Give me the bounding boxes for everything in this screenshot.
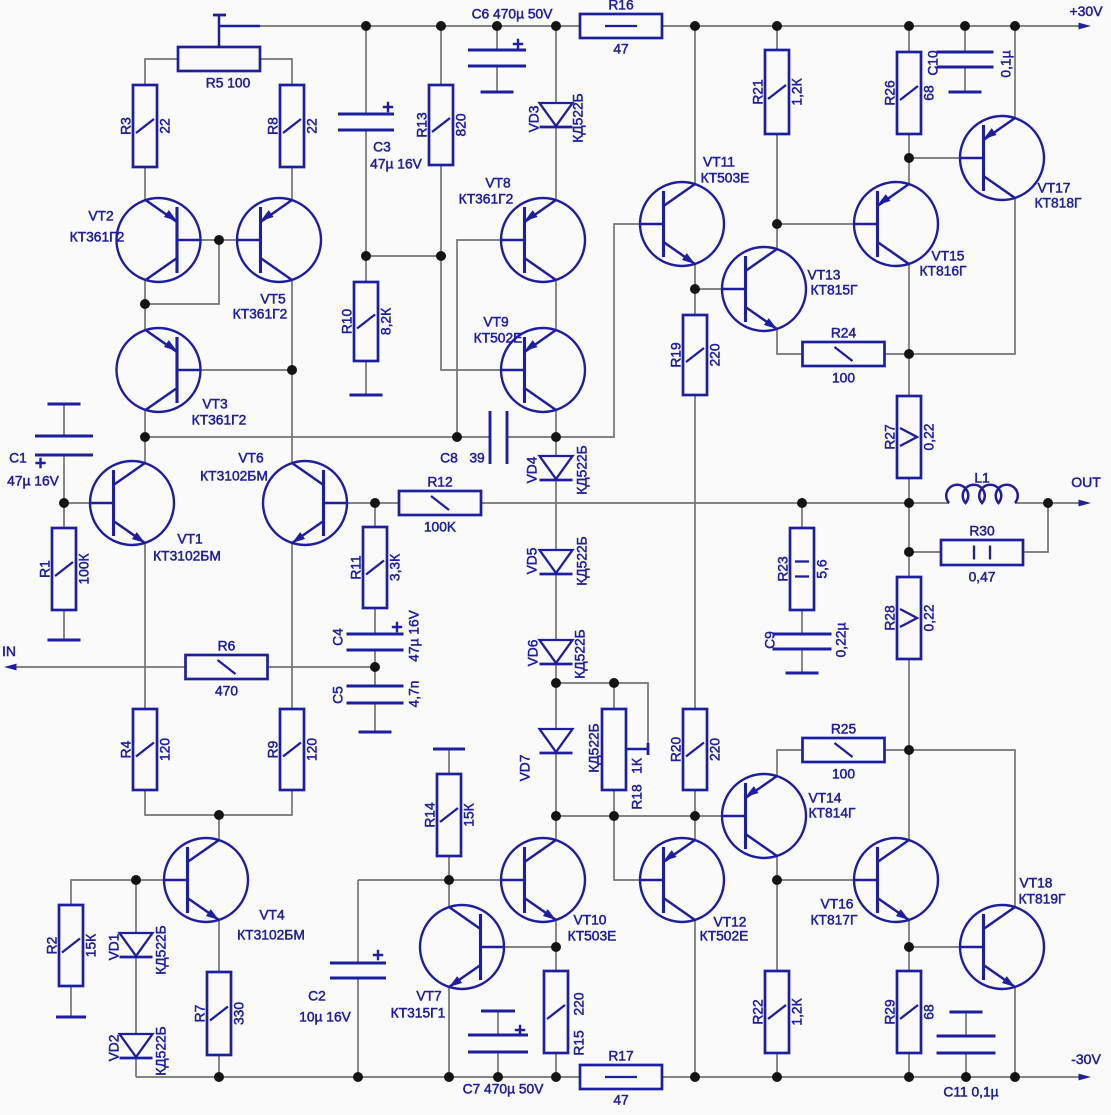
svg-text:КТ361Г2: КТ361Г2	[233, 307, 288, 322]
svg-text:100К: 100К	[77, 553, 92, 584]
svg-text:120: 120	[158, 738, 173, 761]
wire R14 terminal stem	[448, 749, 450, 774]
transistor VT3	[117, 328, 201, 412]
wire mid rail left of C8	[145, 436, 490, 438]
svg-text:VT9: VT9	[483, 315, 509, 330]
svg-text:КТ361Г2: КТ361Г2	[70, 230, 125, 245]
svg-text:КТ503Е: КТ503Е	[568, 929, 617, 944]
wire node to VT16 base	[777, 879, 853, 881]
transistor VT11	[640, 182, 724, 266]
wire C11 stem bottom	[965, 1053, 967, 1077]
terminal R2	[56, 1016, 86, 1019]
diode VD6	[540, 640, 573, 663]
wire node to VT9 base	[441, 256, 500, 370]
inductor L1	[946, 485, 1018, 503]
diode VD7	[540, 729, 573, 752]
wire OUT line after L1	[1015, 502, 1086, 504]
wire -30V rail left segment	[136, 1076, 580, 1078]
resistor R7	[207, 972, 231, 1055]
wire VT12 collector to -30V rail	[694, 920, 696, 1077]
svg-text:VT8: VT8	[485, 176, 511, 191]
wire node to VT4 collector	[218, 815, 220, 840]
svg-text:R12: R12	[427, 475, 452, 490]
wire VT18 collector to node	[909, 750, 1015, 907]
svg-text:R7: R7	[193, 1005, 208, 1023]
junction R25/VT16/VT18	[904, 745, 914, 755]
svg-text:R14: R14	[423, 802, 438, 828]
resistor R26	[897, 52, 921, 134]
svg-text:22: 22	[305, 118, 320, 133]
wire R4 bottom to node	[145, 790, 219, 815]
resistor R29	[897, 971, 921, 1053]
wire node to VT12 emitter	[694, 816, 696, 840]
wire VT14 emitter to R25	[777, 750, 803, 775]
junction L1/R30/OUT	[1043, 498, 1053, 508]
svg-text:68: 68	[922, 1004, 937, 1020]
wire R19 top	[694, 289, 696, 315]
capacitor C11	[950, 1011, 983, 1014]
junctions top rail	[361, 21, 371, 31]
svg-text:R8: R8	[266, 117, 281, 135]
svg-text:КД522Б: КД522Б	[587, 723, 602, 772]
svg-text:КТ3102БМ: КТ3102БМ	[200, 469, 268, 484]
wire OUT node to R28 top	[908, 503, 910, 577]
svg-text:C3: C3	[373, 140, 391, 155]
junction VT11 emitter/R19	[690, 284, 700, 294]
wire R11 bottom to C4	[374, 608, 376, 634]
svg-text:-30V: -30V	[1071, 1051, 1101, 1067]
wire VT11 emitter	[694, 264, 696, 289]
svg-text:КТ361Г2: КТ361Г2	[192, 413, 247, 428]
resistor R28	[897, 577, 921, 659]
svg-text:1,2К: 1,2К	[790, 78, 805, 105]
wire C3 top	[365, 26, 367, 114]
svg-text:R30: R30	[969, 524, 995, 539]
svg-text:R18: R18	[630, 784, 645, 810]
wire R13 bottom	[440, 165, 442, 256]
wire R23 top	[801, 503, 803, 528]
svg-text:КТ3102БМ: КТ3102БМ	[153, 549, 221, 564]
svg-text:100: 100	[832, 371, 855, 386]
junction R13 node	[436, 251, 446, 261]
transistor VT8	[501, 198, 585, 282]
svg-text:R26: R26	[883, 80, 898, 106]
svg-text:C7 470µ 50V: C7 470µ 50V	[463, 1082, 545, 1097]
resistor R10	[354, 282, 378, 361]
svg-text:1,2К: 1,2К	[790, 998, 805, 1025]
wire C11 stem top	[965, 1012, 967, 1036]
transistor VT13	[722, 247, 806, 331]
svg-text:22: 22	[158, 118, 173, 133]
svg-text:КТ818Г: КТ818Г	[1035, 196, 1082, 211]
svg-text:820: 820	[454, 113, 469, 136]
svg-text:5,6: 5,6	[815, 559, 830, 579]
wire C1 bottom to node	[63, 455, 65, 503]
wire IN line left	[8, 666, 185, 668]
resistor R17	[580, 1065, 662, 1089]
resistor R13	[429, 85, 453, 165]
resistor R27	[897, 396, 921, 478]
resistor R22	[765, 971, 789, 1053]
svg-text:R10: R10	[340, 309, 355, 335]
diode VD1	[120, 933, 153, 956]
wire mid rail right of C8 to VT11 base	[507, 224, 639, 437]
svg-text:R20: R20	[669, 737, 684, 763]
svg-text:470: 470	[215, 684, 238, 699]
svg-text:VT4: VT4	[259, 908, 285, 923]
resistor R4	[133, 709, 157, 790]
svg-text:L1: L1	[974, 471, 989, 486]
resistor R23	[790, 528, 814, 610]
wire VT5 collector to VT6 collector	[291, 280, 293, 463]
wire node to VD7 anode	[555, 683, 557, 729]
net IN arrow	[4, 664, 17, 671]
wire R27 bottom to OUT line	[908, 478, 910, 503]
junction R23 top	[797, 498, 807, 508]
wire C5 bottom to ground	[374, 704, 376, 732]
svg-text:VT1: VT1	[177, 532, 202, 547]
capacitor C9	[773, 633, 832, 636]
wire R2 bottom to terminal	[70, 986, 72, 1017]
resistor R16	[580, 14, 662, 38]
svg-text:100K: 100K	[424, 520, 457, 535]
junction VT14/R22/VT16 base	[772, 875, 782, 885]
terminal R14	[433, 748, 465, 751]
svg-text:R23: R23	[776, 556, 791, 582]
svg-text:КТ361Г2: КТ361Г2	[459, 192, 514, 207]
wire node to VT15 emitter	[908, 158, 910, 184]
junction C3/R10 node	[361, 251, 371, 261]
resistor R2	[59, 905, 83, 986]
svg-text:+30V: +30V	[1069, 3, 1103, 19]
wire VD2 cathode to -30V rail	[135, 1059, 137, 1077]
wire VT17 emitter to rail	[1014, 26, 1016, 118]
wire VT14 collector	[776, 856, 778, 880]
svg-text:VT15: VT15	[932, 249, 965, 264]
junction VT6 base node	[370, 498, 380, 508]
wire node to VT18 base	[909, 946, 959, 948]
svg-text:VD2: VD2	[107, 1035, 122, 1062]
svg-text:КТ817Г: КТ817Г	[811, 913, 858, 928]
transistor VT12	[640, 838, 724, 922]
svg-text:R15: R15	[572, 1030, 587, 1056]
svg-text:R9: R9	[266, 740, 281, 758]
svg-text:8,2К: 8,2К	[379, 308, 394, 335]
wire R30 right to OUT	[1023, 503, 1048, 552]
junction VD7/VT10 node	[551, 811, 561, 821]
svg-text:C10: C10	[926, 50, 941, 76]
wire node to VD1 anode	[135, 880, 137, 933]
resistor R20	[683, 709, 707, 790]
wire VT13 emitter to R24	[777, 329, 803, 354]
wire node to VT12 base	[614, 816, 639, 880]
transistor VT2	[117, 198, 201, 282]
svg-text:C8: C8	[440, 451, 458, 466]
wire R10 bottom to ground	[365, 361, 367, 395]
wire R5 right to R8 top	[260, 59, 292, 85]
transistor VT15	[854, 182, 938, 266]
wire VT4 base to node	[136, 879, 163, 881]
svg-text:47µ 16V: 47µ 16V	[407, 609, 422, 661]
wire C7 stem top	[497, 1011, 499, 1035]
svg-text:VT16: VT16	[821, 897, 854, 912]
resistor R25	[803, 738, 885, 762]
svg-text:R13: R13	[415, 112, 430, 138]
svg-text:VT14: VT14	[809, 791, 842, 806]
svg-text:R25: R25	[831, 722, 857, 737]
junction R14/VT7/VT10 base	[444, 875, 454, 885]
wire R10 top	[365, 256, 367, 282]
svg-text:VT6: VT6	[238, 451, 264, 466]
junction VT4 base node	[131, 875, 141, 885]
wire node to VT1 base	[64, 502, 89, 504]
svg-text:R29: R29	[883, 999, 898, 1025]
wire VD3 cathode to VT8 emitter	[555, 128, 557, 200]
wire C1 top stem	[63, 404, 65, 436]
wire VT13 collector	[776, 224, 778, 249]
svg-text:КТ814Г: КТ814Г	[809, 806, 856, 821]
svg-text:0,22: 0,22	[922, 605, 937, 632]
wire VD1 cathode to VD2 anode	[135, 958, 137, 1034]
wire R15 bottom to rail	[555, 1053, 557, 1077]
resistor R8	[280, 85, 304, 167]
wire R21 top	[776, 26, 778, 50]
wire R26 top	[908, 26, 910, 52]
wire VD4 anode	[555, 437, 557, 456]
svg-text:VT18: VT18	[1020, 876, 1053, 891]
junction R18 top node	[609, 678, 619, 688]
wire VT11 collector	[694, 26, 696, 184]
svg-text:IN: IN	[2, 643, 16, 659]
diode VD3	[540, 103, 573, 126]
junction VT1 base node	[59, 498, 69, 508]
ground C5	[359, 731, 392, 734]
wire VD6 cathode to node	[555, 665, 557, 683]
svg-text:R4: R4	[119, 740, 134, 758]
svg-text:47µ 16V: 47µ 16V	[7, 474, 59, 489]
junctions -30V rail	[214, 1072, 224, 1082]
junction R27/OUT	[904, 498, 914, 508]
wire C2 bottom to rail	[357, 978, 359, 1077]
wire node to VT10 collector	[555, 816, 557, 840]
diode VD2	[120, 1034, 153, 1057]
wire VT9 collector to mid rail	[555, 410, 557, 437]
wire R5 left to R3 top	[145, 59, 178, 85]
svg-text:КТ819Г: КТ819Г	[1019, 892, 1066, 907]
junction VT2 collector node	[140, 299, 150, 309]
svg-text:КД522Б: КД522Б	[154, 1026, 169, 1075]
wire node to VT13 base	[695, 288, 721, 290]
junction R26/VT17 base	[904, 153, 914, 163]
wire node to VT15 base	[777, 223, 853, 225]
wire node to R2 top	[71, 880, 136, 905]
transistor VT17	[960, 116, 1044, 200]
wire R19 bottom to R20 top	[694, 395, 696, 709]
wire VT7 collector to node	[448, 880, 450, 907]
wire VT6 base to node	[348, 502, 375, 504]
capacitor C8	[489, 411, 492, 464]
svg-text:220: 220	[708, 738, 723, 761]
wire VT8 base to mid rail	[457, 240, 500, 437]
svg-text:R11: R11	[349, 555, 364, 579]
svg-text:VD1: VD1	[107, 934, 122, 961]
ground C9	[786, 672, 819, 675]
wire C3 bottom to node	[365, 130, 367, 256]
svg-text:68: 68	[922, 85, 937, 101]
resistor R30	[941, 540, 1023, 565]
resistor R6	[186, 655, 268, 679]
svg-text:VT13: VT13	[808, 268, 841, 283]
svg-text:330: 330	[232, 1002, 247, 1025]
wire R18 bottom	[613, 790, 615, 816]
wire node C3/R10 to R13 node	[366, 255, 441, 257]
svg-text:КТ502Е: КТ502Е	[474, 331, 523, 346]
resistor R15	[544, 971, 568, 1053]
wire R3 bottom to VT2 emitter	[144, 167, 146, 200]
svg-text:КТ815Г: КТ815Г	[811, 283, 858, 298]
wire node to R18 wiper	[556, 683, 648, 743]
wire R29 bottom to rail	[908, 1053, 910, 1077]
svg-text:VD3: VD3	[527, 105, 542, 132]
wire VT2 collector to VT3 emitter	[144, 280, 146, 330]
svg-text:VT11: VT11	[703, 155, 735, 170]
wire VT17 collector to output node	[909, 198, 1015, 354]
junction VT2/VT5 bases	[214, 235, 224, 245]
capacitor C4	[347, 633, 404, 636]
svg-text:R21: R21	[751, 79, 766, 104]
svg-text:VT10: VT10	[574, 913, 607, 928]
wire VT2 collector node to base node	[145, 240, 219, 304]
svg-text:VT7: VT7	[416, 989, 441, 1004]
wire R9 bottom to node	[219, 790, 292, 815]
wire R25 right	[884, 749, 909, 751]
wire row 880 to VT10 base	[358, 879, 500, 881]
svg-text:R16: R16	[608, 0, 634, 13]
transistor VT6	[263, 461, 347, 545]
wire VD5 to VD6	[555, 575, 557, 640]
wire R6 right to node	[268, 666, 375, 668]
svg-text:39: 39	[469, 451, 485, 466]
wire VT1 emitter to R4	[144, 543, 146, 709]
wire node to VT16 collector	[908, 750, 910, 840]
svg-text:КД522Б: КД522Б	[571, 93, 586, 142]
wire VT8 collector to VT9 emitter	[555, 280, 557, 330]
wire R23 bottom to C9	[801, 610, 803, 634]
transistor VT9	[501, 328, 585, 412]
wire node to R11 top	[374, 503, 376, 527]
transistor VT1	[90, 461, 174, 545]
svg-text:C9: C9	[763, 631, 778, 649]
wire R18 top	[613, 683, 615, 709]
junction R28/R30	[904, 547, 914, 557]
svg-text:0,22: 0,22	[922, 424, 937, 451]
svg-text:R1: R1	[38, 560, 53, 578]
wire C6 stem top	[496, 26, 498, 50]
wire R14 bottom to node	[448, 856, 450, 880]
svg-text:C4: C4	[331, 628, 346, 646]
resistor R1	[52, 528, 76, 610]
svg-text:R19: R19	[669, 342, 684, 368]
svg-text:47µ 16V: 47µ 16V	[370, 157, 422, 172]
wire VT4 emitter to R7	[218, 920, 220, 972]
svg-text:VT12: VT12	[714, 915, 747, 930]
svg-text:VD5: VD5	[525, 547, 540, 574]
svg-text:C5: C5	[331, 686, 346, 704]
svg-text:КТ502Е: КТ502Е	[700, 929, 749, 944]
svg-text:R6: R6	[218, 639, 236, 654]
wire node to R22 top	[776, 880, 778, 971]
junction R4/R9/VT4	[214, 810, 224, 820]
diode VD5	[540, 550, 573, 573]
transistor VT5	[237, 198, 321, 282]
wire R12 right to VD column	[481, 502, 556, 504]
wire VT3 collector to mid rail	[144, 410, 146, 437]
transistor VT7	[420, 905, 504, 989]
wire VT10 emitter to node	[555, 920, 557, 947]
svg-text:4,7n: 4,7n	[407, 681, 422, 708]
wire -30V rail right segment	[662, 1076, 1086, 1078]
terminal R1	[48, 639, 81, 642]
svg-text:1К: 1К	[630, 758, 645, 774]
wire VT6 emitter to R9	[291, 543, 293, 709]
svg-text:VT17: VT17	[1038, 181, 1071, 196]
wire VT7 base to node	[505, 946, 556, 948]
transistor VT14	[722, 774, 806, 858]
wire C7 stem bottom	[497, 1052, 499, 1077]
capacitor C7	[481, 1010, 515, 1013]
wire R21 bottom to node	[776, 134, 778, 224]
junction R18 bottom node	[609, 811, 619, 821]
wire VT15 collector	[908, 264, 910, 354]
wire +30V rail left segment	[260, 25, 580, 27]
svg-text:VT3: VT3	[202, 397, 228, 412]
junction mid rail VT3/VT1	[140, 432, 150, 442]
svg-text:0,22µ: 0,22µ	[834, 623, 849, 658]
svg-text:VT2: VT2	[88, 209, 113, 224]
junction R20/VT12/VT14	[690, 811, 700, 821]
svg-text:R22: R22	[751, 999, 766, 1024]
svg-text:15К: 15К	[462, 803, 477, 826]
ground R10	[350, 394, 383, 397]
wire node to R1 top	[63, 503, 65, 528]
wire C10 stem top	[964, 26, 966, 52]
junction mid rail VT9 collector	[551, 432, 561, 442]
resistor R5 (trimmer)	[178, 47, 260, 71]
wire C10 stem bottom	[964, 67, 966, 92]
capacitor C10	[937, 51, 994, 54]
wire row 816 horizontal	[556, 815, 721, 817]
svg-text:220: 220	[572, 992, 587, 1015]
junction VD6 node	[551, 678, 561, 688]
capacitor C5	[347, 685, 404, 688]
svg-text:10µ 16V: 10µ 16V	[299, 1010, 351, 1025]
wire node to R29 top	[908, 947, 910, 971]
wire C6 stem bottom	[496, 66, 498, 92]
wire C4 to C5 node	[374, 651, 376, 686]
svg-text:R17: R17	[608, 1049, 633, 1064]
wire R8 bottom to VT5 emitter	[291, 167, 293, 200]
svg-text:C1: C1	[9, 451, 27, 466]
svg-text:КТ816Г: КТ816Г	[920, 264, 967, 279]
transistor VT16	[854, 838, 938, 922]
wire VT16 emitter to node	[908, 920, 910, 947]
junction R24/VT15/VT17	[904, 349, 914, 359]
resistor R9	[280, 709, 304, 790]
svg-text:КД522Б: КД522Б	[573, 629, 588, 678]
resistor R3	[133, 85, 157, 167]
svg-text:R24: R24	[831, 326, 857, 341]
svg-text:R3: R3	[119, 117, 134, 135]
